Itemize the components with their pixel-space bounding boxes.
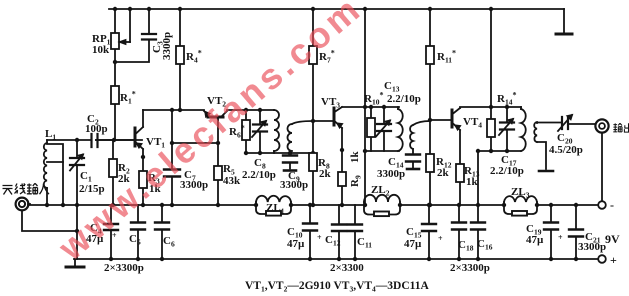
junction dots top rail [113, 7, 117, 11]
wire C1 column [76, 140, 78, 259]
resistor R13 1k [456, 164, 464, 182]
wire RP1 top [114, 9, 116, 33]
capacitor C3 3300p [142, 34, 156, 40]
resistor R8 2k [309, 153, 317, 171]
svg-text:ZL2: ZL2 [371, 184, 390, 198]
wire C21 column [575, 205, 577, 259]
svg-text:C16: C16 [477, 238, 493, 252]
svg-text:+: + [438, 234, 443, 243]
capacitor C16 [471, 223, 485, 230]
resistor R2 2k [109, 159, 117, 177]
wire C11 column [354, 205, 356, 259]
svg-text:1k: 1k [349, 151, 361, 164]
transistor VT1 [134, 128, 137, 146]
terminal minus [598, 201, 606, 209]
svg-text:3300p: 3300p [377, 168, 405, 180]
svg-text:3300p: 3300p [280, 179, 308, 191]
transistor VT3 [333, 108, 336, 125]
svg-text:+: + [558, 233, 563, 242]
capacitor C11 [348, 225, 362, 232]
wire C2 to VT1 base [96, 139, 142, 141]
svg-text:47µ: 47µ [404, 238, 422, 250]
choke ZL3 [504, 196, 537, 202]
ground bar T3 secondary [539, 170, 553, 173]
wire R1 to base wire [114, 104, 116, 140]
capacitor C6 [155, 223, 169, 230]
wire R6 column [245, 110, 247, 153]
resistor R4 [176, 46, 184, 64]
wire C15 column [428, 205, 430, 259]
wire C3 column [115, 9, 149, 62]
capacitor C9 3300p [283, 156, 297, 163]
svg-text:R9: R9 [349, 175, 363, 187]
wire R7 column [312, 9, 314, 153]
resistor R10 [367, 118, 375, 137]
svg-text:47µ: 47µ [526, 234, 544, 246]
resistor R12 2k [426, 154, 434, 172]
wire C19 column [550, 205, 552, 259]
transformer T2 primary coil [398, 109, 403, 151]
wire tank3 bottom [365, 150, 399, 152]
svg-text:R11*: R11* [437, 49, 456, 65]
label 天线输入 (antenna input) [3, 183, 50, 194]
resistor R11 [426, 46, 434, 64]
wire R10 column [370, 107, 372, 151]
wire tank2 bottom [246, 152, 313, 154]
svg-text:2.2/10p: 2.2/10p [490, 165, 524, 177]
bottom rail (+ bus) [74, 258, 598, 260]
ground bar under C9 [284, 169, 296, 172]
svg-text:VT1,VT2—2G910 VT3,VT4—3DC11A: VT1,VT2—2G910 VT3,VT4—3DC11A [245, 280, 430, 294]
wire L1 link [47, 144, 63, 205]
svg-text:2k: 2k [319, 168, 332, 180]
antenna input jack [16, 198, 29, 211]
wire VT1 collector [142, 110, 144, 127]
wire T2 secondary bottom to C14 [412, 149, 414, 169]
wire C10 column [309, 205, 311, 259]
svg-text:R10*: R10* [364, 91, 383, 107]
capacitor C13 (variable 2.2/10p) [377, 124, 391, 131]
wire C16 column [477, 205, 479, 259]
wire R14 column [490, 9, 492, 151]
wire C18 column [458, 205, 460, 259]
wire VT3 base [313, 120, 333, 122]
capacitor C14 3300p [406, 155, 420, 162]
ground (bottom left) [74, 259, 76, 266]
output jack [595, 119, 608, 132]
svg-text:4.5/20p: 4.5/20p [549, 144, 583, 156]
svg-text:3300p: 3300p [180, 179, 208, 191]
svg-text:ZL3: ZL3 [511, 186, 530, 200]
wire R8 column [312, 171, 314, 205]
svg-text:1k: 1k [466, 176, 479, 188]
wire C17 column [506, 107, 508, 151]
svg-text:VT4: VT4 [463, 116, 482, 130]
wire VT2 collector to tank2 [227, 109, 274, 111]
wire R4 column [179, 9, 181, 110]
wire main input (L1/C1 to C2) [47, 139, 90, 141]
choke ZL2 [364, 195, 400, 202]
wire R11 column [429, 9, 431, 120]
wire T3 secondary bottom [537, 142, 546, 169]
terminal plus [598, 255, 606, 263]
node wire VT1 collector to VT2 emitter [143, 109, 204, 111]
svg-text:R4*: R4* [186, 49, 202, 65]
svg-text:2×3300p: 2×3300p [104, 262, 144, 274]
wire R5 column [217, 143, 219, 205]
wire R12 column [429, 120, 431, 205]
transformer T3 primary coil [521, 109, 526, 151]
svg-text:C5: C5 [129, 233, 141, 247]
transformer T1 primary coil [274, 110, 280, 151]
svg-text:C1: C1 [80, 170, 92, 184]
svg-text:R14*: R14* [497, 91, 516, 107]
junction dots stage1 [111, 203, 115, 207]
wire C7 column [171, 110, 173, 205]
wire output jack shell down [601, 133, 603, 201]
svg-text:10k: 10k [92, 44, 110, 56]
label 输出 (output) [613, 123, 629, 132]
resistor R1 [111, 86, 119, 104]
svg-text:+: + [317, 233, 322, 242]
resistor R3 1k [139, 171, 147, 188]
transistor VT2 [208, 116, 223, 119]
inductor L1 [44, 143, 47, 188]
svg-text:2×3300: 2×3300 [330, 262, 364, 274]
wire C8 column [259, 110, 261, 153]
svg-text:C6: C6 [163, 235, 175, 249]
capacitor C7 3300p [164, 170, 180, 177]
svg-text:+: + [610, 253, 617, 267]
capacitor C8 (variable 2.2/10p) [253, 125, 267, 132]
capacitor C20 (variable 4.5/20p) [562, 117, 568, 129]
svg-text:100p: 100p [85, 123, 108, 135]
svg-text:ZL1: ZL1 [266, 202, 285, 216]
capacitor C4 47u [104, 224, 118, 230]
capacitor C17 (variable 2.2/10p) [500, 123, 514, 130]
wire T2 secondary top to R11 [413, 121, 430, 125]
capacitor C1 (variable 2/15p) [70, 158, 84, 165]
wire C6 column [161, 205, 163, 259]
capacitor C5 [131, 223, 145, 230]
ground bar under C14 [407, 168, 419, 171]
wire C13 column [383, 107, 385, 151]
capacitor C18 [452, 223, 466, 230]
resistor R14 [487, 119, 495, 137]
svg-text:C18: C18 [458, 239, 474, 253]
junction dots input [45, 203, 49, 207]
capacitor C15 47u [422, 224, 436, 231]
transformer T3 secondary coil [534, 122, 537, 142]
transformer T2 secondary coil [410, 125, 413, 149]
wire VT4 collector [460, 107, 521, 108]
junction dots stage4 [457, 203, 461, 207]
capacitor C10 47u [303, 224, 317, 231]
svg-text:43k: 43k [223, 175, 241, 187]
mid supply rail [28, 204, 598, 206]
capacitor C21 3300p [569, 230, 583, 237]
transformer T1 secondary coil [288, 124, 292, 151]
transistor VT4 [451, 110, 454, 127]
capacitor C19 47u [544, 223, 558, 230]
resistor R6 [242, 120, 250, 140]
svg-text:3300p: 3300p [161, 32, 173, 60]
wire T3 secondary top to C20 [537, 122, 561, 125]
top rail (negative bus) [109, 8, 564, 10]
resistor R7 [309, 46, 317, 64]
wire C9 column [289, 153, 291, 169]
svg-text:2×3300p: 2×3300p [450, 262, 490, 274]
svg-text:R1*: R1* [120, 90, 136, 106]
wire VT1 emitter to R3 [142, 149, 144, 205]
svg-text:-: - [610, 198, 614, 212]
wire C12 column [338, 205, 340, 259]
junction dots stage3 [340, 148, 344, 152]
resistor R5 43k [214, 166, 222, 180]
wire VT3 emitter to R9 [341, 128, 343, 205]
svg-text:2.2/10p: 2.2/10p [387, 93, 421, 105]
wire VT4 base [430, 119, 451, 121]
wire L1 tap [47, 161, 63, 163]
wire C5 column [137, 205, 139, 259]
wire C20 to output jack [569, 123, 595, 125]
wire tank4 bottom drop [477, 151, 479, 205]
svg-text:VT3: VT3 [321, 96, 340, 110]
svg-text:9V: 9V [605, 232, 620, 246]
choke ZL1 [256, 196, 291, 202]
wire RP1 bottom to R1 [114, 49, 116, 86]
wire VT2 base node [172, 117, 218, 143]
wire T1 secondary top to R7 [292, 121, 313, 124]
wire rail drop to ZL2 [364, 9, 366, 205]
wire L1 top to main input wire [46, 140, 48, 143]
svg-text:3300p: 3300p [578, 241, 606, 253]
svg-text:2.2/10p: 2.2/10p [242, 169, 276, 181]
svg-text:L1: L1 [45, 128, 56, 142]
capacitor C2 100p [92, 134, 98, 147]
wire antenna return [22, 211, 77, 231]
svg-text:C11: C11 [357, 236, 372, 250]
potentiometer RP1 10k [111, 33, 119, 49]
wire VT3 collector [342, 106, 399, 108]
wire VT4 emitter to R13 [459, 130, 461, 205]
ground (top right) [563, 9, 565, 33]
wire RP1 wiper link [129, 9, 131, 42]
svg-text:2k: 2k [437, 167, 450, 179]
wire R2 column [112, 140, 114, 205]
capacitor C12 [332, 225, 346, 232]
svg-text:C13: C13 [384, 80, 400, 94]
resistor R9 1k [338, 172, 346, 186]
wire antenna jack to tank [28, 203, 30, 205]
wire C4 column [110, 205, 112, 259]
svg-text:47µ: 47µ [287, 238, 305, 250]
wire L1 bottom [46, 188, 48, 205]
junction dots stage2 [216, 141, 220, 145]
wire tank4 bottom [478, 150, 521, 152]
